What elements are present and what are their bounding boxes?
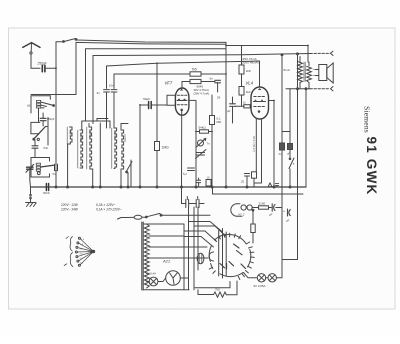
svg-text:250pF: 250pF (37, 62, 48, 66)
svg-text:54kΩ: 54kΩ (199, 126, 207, 130)
wire bus L3 y55.5 (93, 54, 310, 124)
svg-text:µF: µF (287, 152, 290, 156)
svg-text:0,050: 0,050 (88, 131, 92, 138)
resistor 0,1M (210, 116, 222, 125)
wire vertical x290 + switch (287, 89, 295, 187)
capacitor 3n (x106.5) (97, 90, 110, 128)
svg-text:5nF: 5nF (44, 146, 49, 150)
wire bus L1 y42.2 (76, 42, 226, 94)
capacitor 6n (210, 77, 221, 93)
drum link wires (184, 222, 226, 248)
wire vertical x140 (139, 105, 141, 188)
trimmer capacitor (196, 150, 207, 159)
capacitor 250pF (antenna) (37, 62, 57, 72)
svg-text:µF: µF (286, 219, 290, 223)
switch arm right of coils (126, 162, 132, 188)
wire vertical x92.7 (92, 169, 94, 187)
transformer bottom wire (143, 289, 189, 291)
resistor 54k (196, 126, 212, 134)
IF coil top links (82, 119, 128, 131)
tube VL4 (246, 81, 269, 120)
svg-text:4V 0,4A: 4V 0,4A (146, 272, 156, 276)
svg-text:0,0750: 0,0750 (123, 134, 127, 142)
svg-text:5,2: 5,2 (183, 172, 187, 176)
svg-text:50nF: 50nF (43, 191, 50, 195)
pilot lamps 9V (244, 260, 283, 288)
electrolytic 50uF a (269, 204, 282, 217)
wire vertical x181.5 (VF7 cathode to bus) (181, 115, 183, 187)
svg-text:0,2A × 125V~: 0,2A × 125V~ (96, 203, 116, 207)
rectifier VY2 (231, 204, 259, 217)
capacitor on bus x198 (197, 178, 201, 187)
svg-text:3n: 3n (97, 91, 101, 95)
svg-text:6n: 6n (210, 77, 214, 81)
band switch section 3 with coil (31, 158, 53, 178)
wire bus L5 y74 (114, 74, 190, 89)
svg-text:39 4,7 (32 4,7): 39 4,7 (32 4,7) (252, 136, 255, 152)
resistor 9045 (screen feed) (182, 79, 215, 95)
svg-text:(39V 4,7mA): (39V 4,7mA) (194, 91, 210, 95)
capacitor pair (mains filter) (182, 187, 205, 208)
svg-text:7n: 7n (207, 142, 211, 146)
svg-text:(200V 45mA): (200V 45mA) (241, 61, 259, 65)
antenna (23, 43, 40, 69)
wire vertical x226 (detector HT) (225, 42, 227, 187)
svg-text:0,50: 0,50 (69, 131, 73, 137)
svg-text:1MΩ: 1MΩ (162, 146, 170, 150)
svg-text:VF7: VF7 (165, 81, 173, 86)
svg-text:9V 0,05A: 9V 0,05A (254, 284, 266, 288)
capacitor cathode 25n (241, 174, 250, 188)
capacitor marks above bus right (268, 183, 279, 187)
dial lamp 4V (146, 272, 163, 286)
wire VL4 anode right (269, 101, 275, 188)
output transformer (284, 57, 312, 89)
wire vertical x198 (197, 207, 199, 270)
svg-text:LB: LB (27, 104, 30, 108)
wire vertical x157 (156, 63, 158, 187)
scan sheet background (9, 28, 396, 309)
resistor 2150 (259, 202, 272, 210)
capacitor 5200 (183, 168, 195, 176)
resistor cathode (252, 172, 257, 187)
electrolytic 50uF b (283, 209, 290, 223)
VF7 grid bracket (167, 95, 175, 105)
wire vertical x121 (120, 169, 122, 187)
svg-text:0,0520: 0,0520 (79, 134, 83, 142)
diode detector (197, 138, 211, 147)
wire top line A y39.5 (77, 40, 226, 42)
wire vertical x306 (305, 89, 307, 187)
svg-text:0,1A × 170-220V~: 0,1A × 170-220V~ (96, 208, 122, 212)
wire vertical x297.5 (297, 54, 299, 260)
resistor smoothing (251, 209, 255, 243)
wire VL4 cathode legs (254, 119, 262, 184)
wire vertical x100.3 (99, 123, 101, 187)
svg-text:7k5: 7k5 (192, 67, 197, 71)
capacitor 450pF (40, 113, 55, 126)
resistor 1M (155, 142, 170, 151)
capacitor 50nF feedthrough on bus (43, 184, 50, 195)
ground (26, 187, 37, 207)
svg-text:A21: A21 (162, 259, 170, 264)
svg-text:50µF: 50µF (143, 97, 151, 101)
svg-text:VL4: VL4 (246, 81, 254, 86)
rotary drum switch (184, 229, 254, 280)
IF coil w2 (78, 130, 83, 168)
capacitor 10n (x114) (109, 84, 117, 129)
svg-text:0,040: 0,040 (113, 132, 117, 139)
resistor 7k5 heater (zigzag) (195, 281, 237, 297)
coil LB band switch section 1 (27, 95, 76, 123)
tuning indicator (163, 271, 189, 286)
svg-text:1k8: 1k8 (246, 69, 251, 73)
svg-text:10n: 10n (109, 84, 114, 88)
wire vertical x196 (195, 101, 197, 187)
capacitor 5nF upper (32, 140, 48, 157)
svg-text:25: 25 (241, 180, 244, 184)
wire bus L2 y48.8 (86, 49, 227, 121)
resistor 1k grid stopper (235, 100, 251, 107)
svg-text:29: 29 (217, 96, 221, 100)
resistor 1k2 (239, 74, 251, 106)
band switch section 2 (31, 118, 48, 146)
bottom right corner wires (282, 259, 298, 261)
svg-text:220V~ 34W: 220V~ 34W (60, 208, 79, 212)
IF coil w5 (121, 130, 127, 169)
junction dots misc (55, 45, 309, 133)
capacitor coupling nF (to VL4 grid) (227, 97, 235, 123)
IF coil w4 (112, 128, 117, 169)
wire B+ top right y45.5 (226, 46, 308, 63)
fuse + mains switch (118, 213, 211, 219)
switch S-ant (56, 39, 77, 43)
variable capacitor (tuning) (26, 164, 34, 187)
svg-text:MΩ: MΩ (217, 120, 222, 124)
tube VF7 (165, 81, 189, 116)
wire bus L4 y64 (107, 61, 260, 89)
wire vertical x212 (211, 95, 213, 187)
svg-text:5n: 5n (53, 172, 56, 176)
speaker (313, 63, 333, 83)
svg-text:+: + (283, 210, 285, 214)
IF coil w3 (87, 127, 93, 169)
wire vertical x67.6 (67, 144, 69, 187)
svg-text:91 GWK: 91 GWK (364, 137, 379, 196)
dashed lead bottom (286, 87, 333, 91)
resistor 1k8 (239, 46, 251, 75)
svg-text:VY 2: VY 2 (238, 213, 245, 217)
resistor 10 on bus (206, 176, 211, 187)
svg-text:µF: µF (269, 213, 273, 217)
svg-text:2150: 2150 (259, 202, 266, 206)
svg-text:1k2: 1k2 (246, 90, 251, 94)
resistor 7k5 (190, 67, 226, 76)
power transformer A21 (142, 222, 207, 290)
wire antenna vertical bus x56 (55, 42, 57, 164)
capacitor 50uF (VF7 cathode) (140, 97, 167, 109)
wire VF7 anode right (189, 99, 196, 101)
wire second bus y194 (213, 187, 304, 194)
svg-text:8mA: 8mA (284, 68, 291, 72)
wire vertical x281.5 (from L3) (279, 55, 291, 260)
svg-text:µF: µF (227, 109, 231, 113)
svg-text:Siemens: Siemens (363, 106, 372, 133)
IF coil w1 (67, 127, 73, 144)
dashed lead top (281, 51, 333, 56)
tuning dial fan (64, 237, 95, 267)
mains rating text (60, 203, 122, 212)
svg-text:7k5: 7k5 (215, 288, 220, 292)
wire vertical x188.5 (188, 207, 190, 290)
capacitor 5n (x56) (53, 165, 58, 188)
svg-text:220V~ 12W: 220V~ 12W (60, 203, 79, 207)
wire vertical x131 (130, 160, 132, 187)
wire vertical x194 (193, 207, 195, 290)
main bottom bus y187 (31, 186, 307, 188)
